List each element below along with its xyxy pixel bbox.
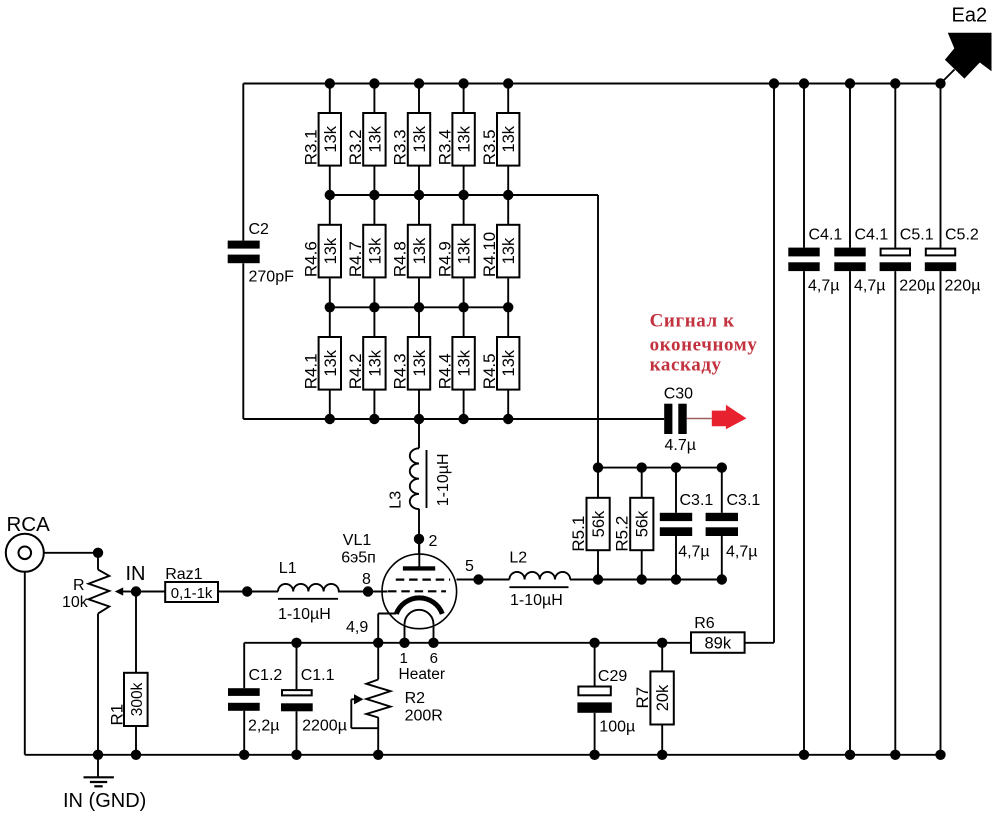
svg-text:220µ: 220µ <box>899 278 935 295</box>
svg-text:R4.6: R4.6 <box>302 241 321 277</box>
svg-text:13k: 13k <box>500 349 518 376</box>
svg-text:R5.2: R5.2 <box>613 516 632 552</box>
svg-text:C4.1: C4.1 <box>855 227 889 244</box>
svg-text:89k: 89k <box>704 634 731 652</box>
svg-text:Ea2: Ea2 <box>952 5 988 27</box>
svg-text:C1.1: C1.1 <box>301 667 335 684</box>
svg-text:4,9: 4,9 <box>346 619 368 636</box>
svg-text:220µ: 220µ <box>945 278 981 295</box>
svg-text:L2: L2 <box>509 550 527 567</box>
svg-text:оконечному: оконечному <box>650 335 758 356</box>
svg-text:L3: L3 <box>388 491 405 509</box>
svg-text:13k: 13k <box>500 125 518 152</box>
svg-text:C1.2: C1.2 <box>249 667 283 684</box>
svg-text:C3.1: C3.1 <box>680 492 714 509</box>
svg-text:R3.1: R3.1 <box>302 129 321 165</box>
svg-text:Heater: Heater <box>399 666 446 683</box>
svg-text:R2: R2 <box>405 690 426 707</box>
svg-text:10k: 10k <box>62 594 89 611</box>
svg-text:5: 5 <box>465 558 474 575</box>
svg-text:13k: 13k <box>456 125 474 152</box>
svg-text:R1: R1 <box>108 704 127 726</box>
svg-text:R3.2: R3.2 <box>346 129 365 165</box>
svg-text:13k: 13k <box>366 237 384 264</box>
svg-text:C29: C29 <box>598 668 627 685</box>
svg-text:13k: 13k <box>366 349 384 376</box>
svg-text:1-10µH: 1-10µH <box>510 592 563 609</box>
svg-text:R4.8: R4.8 <box>391 241 410 277</box>
svg-text:C4.1: C4.1 <box>809 227 843 244</box>
svg-text:13k: 13k <box>366 125 384 152</box>
svg-text:56k: 56k <box>590 510 608 537</box>
svg-text:R4.5: R4.5 <box>480 353 499 389</box>
svg-text:4.7µ: 4.7µ <box>665 437 696 454</box>
svg-text:каскаду: каскаду <box>650 355 722 376</box>
svg-text:R5.1: R5.1 <box>569 516 588 552</box>
svg-text:6: 6 <box>430 650 438 667</box>
svg-text:2: 2 <box>429 533 438 550</box>
svg-text:RCA: RCA <box>7 513 51 536</box>
svg-text:13k: 13k <box>456 237 474 264</box>
svg-text:R7: R7 <box>633 687 652 709</box>
svg-text:R6: R6 <box>694 615 715 632</box>
svg-text:IN: IN <box>126 563 146 585</box>
svg-text:1: 1 <box>400 650 408 667</box>
svg-text:13k: 13k <box>411 349 429 376</box>
svg-text:4,7µ: 4,7µ <box>726 544 757 561</box>
svg-text:R: R <box>73 577 85 594</box>
svg-text:13k: 13k <box>322 237 340 264</box>
svg-text:C2: C2 <box>249 221 270 238</box>
svg-text:R4.10: R4.10 <box>480 232 499 277</box>
svg-text:C5.1: C5.1 <box>900 227 934 244</box>
svg-text:4,7µ: 4,7µ <box>808 278 839 295</box>
svg-text:8: 8 <box>362 571 371 588</box>
svg-text:20k: 20k <box>654 684 672 711</box>
svg-text:R4.9: R4.9 <box>435 241 454 277</box>
svg-text:R4.2: R4.2 <box>346 353 365 389</box>
svg-text:R4.7: R4.7 <box>346 241 365 277</box>
svg-text:13k: 13k <box>411 125 429 152</box>
svg-text:13k: 13k <box>411 237 429 264</box>
svg-text:6э5п: 6э5п <box>341 550 376 567</box>
svg-text:R4.1: R4.1 <box>302 353 321 389</box>
svg-text:300k: 300k <box>129 682 146 716</box>
svg-text:13k: 13k <box>322 349 340 376</box>
svg-text:R3.5: R3.5 <box>480 129 499 165</box>
svg-text:C30: C30 <box>664 386 693 403</box>
svg-text:200R: 200R <box>405 708 443 725</box>
svg-text:Сигнал к: Сигнал к <box>650 311 735 332</box>
svg-text:13k: 13k <box>500 237 518 264</box>
svg-text:13k: 13k <box>456 349 474 376</box>
svg-text:56k: 56k <box>634 510 652 537</box>
svg-text:2200µ: 2200µ <box>302 718 347 735</box>
svg-text:4,7µ: 4,7µ <box>678 544 709 561</box>
svg-text:IN (GND): IN (GND) <box>63 790 146 812</box>
svg-text:1-10µH: 1-10µH <box>435 454 452 507</box>
svg-text:Raz1: Raz1 <box>165 566 202 583</box>
svg-text:R3.3: R3.3 <box>391 129 410 165</box>
svg-text:C3.1: C3.1 <box>727 492 761 509</box>
svg-text:C5.2: C5.2 <box>945 227 979 244</box>
svg-text:VL1: VL1 <box>343 532 372 549</box>
svg-text:0,1-1k: 0,1-1k <box>171 585 213 602</box>
svg-text:13k: 13k <box>322 125 340 152</box>
svg-text:R4.3: R4.3 <box>391 353 410 389</box>
svg-text:R3.4: R3.4 <box>435 129 454 165</box>
svg-text:R4.4: R4.4 <box>435 353 454 389</box>
svg-text:L1: L1 <box>279 560 297 577</box>
svg-text:1-10µH: 1-10µH <box>278 606 331 623</box>
svg-text:4,7µ: 4,7µ <box>854 278 885 295</box>
svg-text:2,2µ: 2,2µ <box>248 718 279 735</box>
svg-text:270pF: 270pF <box>249 269 295 286</box>
svg-text:100µ: 100µ <box>599 719 635 736</box>
